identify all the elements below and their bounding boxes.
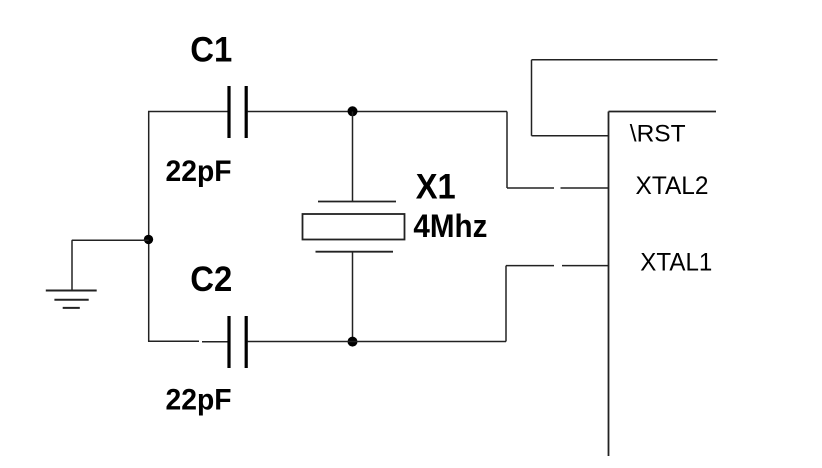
wire bottom horizontal from C2 to corner (248, 341, 507, 343)
wire XTAL1 horizontal to pin (506, 265, 609, 267)
wire ground tap vertical (71, 240, 73, 290)
node junction dot top (crystal/C1) (348, 106, 358, 116)
wire crystal bottom stub (352, 252, 354, 342)
svg-text:4Mhz: 4Mhz (413, 208, 487, 244)
wire RST top horizontal (532, 59, 718, 61)
svg-text:22pF: 22pF (166, 384, 232, 417)
ground (46, 291, 97, 308)
capacitor C1 (229, 86, 246, 138)
svg-text:XTAL2: XTAL2 (636, 172, 709, 200)
svg-text:\RST: \RST (630, 121, 686, 148)
IC U1 box (partial, left edge and top edge) (609, 112, 717, 457)
wire bottom horizontal left of C2 (148, 340, 228, 343)
wire crystal top stub (352, 112, 354, 202)
wire RST vertical (531, 60, 533, 136)
capacitor C2 (229, 316, 246, 368)
svg-text:C2: C2 (190, 260, 232, 299)
svg-text:XTAL1: XTAL1 (640, 249, 712, 277)
svg-text:C1: C1 (190, 31, 232, 70)
node ground junction dot (144, 235, 153, 244)
wire XTAL1 vertical rise (505, 266, 507, 342)
wire XTAL2 vertical drop (506, 112, 508, 189)
wire top horizontal from C1 to corner (248, 111, 508, 113)
wire ground tap horizontal (72, 239, 149, 241)
wire top horizontal left of C1 (148, 111, 228, 113)
svg-text:X1: X1 (416, 168, 456, 207)
wire left vertical (C1 side to C2 side) (148, 112, 150, 342)
crystal X1 (303, 202, 405, 252)
node junction dot bottom (crystal/C2) (348, 337, 358, 347)
svg-text:22pF: 22pF (166, 155, 232, 188)
wire RST horizontal to pin (532, 135, 609, 137)
wire XTAL2 horizontal to pin (507, 187, 609, 189)
